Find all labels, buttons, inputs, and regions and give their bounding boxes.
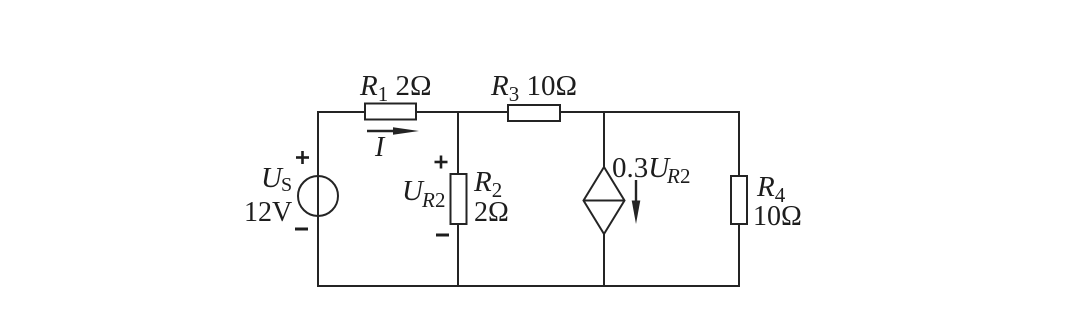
svg-text:2: 2 — [435, 188, 446, 212]
svg-text:2: 2 — [680, 164, 691, 188]
svg-text:2Ω: 2Ω — [474, 197, 509, 228]
svg-text:R: R — [421, 188, 435, 212]
svg-text:12V: 12V — [244, 197, 292, 228]
svg-text:S: S — [281, 174, 292, 196]
svg-text:10Ω: 10Ω — [753, 201, 802, 232]
svg-text:R1 2Ω: R1 2Ω — [359, 70, 432, 106]
svg-text:R: R — [666, 164, 680, 188]
svg-text:0.3U: 0.3U — [612, 152, 671, 184]
svg-text:R3 10Ω: R3 10Ω — [490, 70, 577, 106]
svg-text:I: I — [374, 132, 386, 163]
